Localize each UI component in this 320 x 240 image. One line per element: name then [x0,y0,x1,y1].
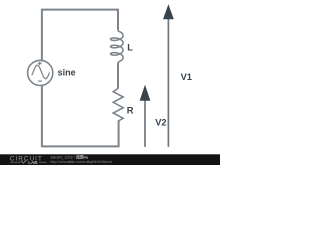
svg-text:CIRCUIT: CIRCUIT [10,156,43,163]
svg-text:satoshi_1202 / 図題4a: satoshi_1202 / 図題4a [50,155,88,160]
svg-text:V1: V1 [181,72,192,82]
svg-text:LAB: LAB [28,160,38,165]
svg-text:sine: sine [58,68,76,78]
svg-text:R: R [127,105,134,115]
svg-text:http://circuitlab.com/c4bq5494: http://circuitlab.com/c4bq5494/5dcch [50,160,112,164]
svg-text:L: L [127,42,133,52]
svg-text:V2: V2 [155,118,166,128]
